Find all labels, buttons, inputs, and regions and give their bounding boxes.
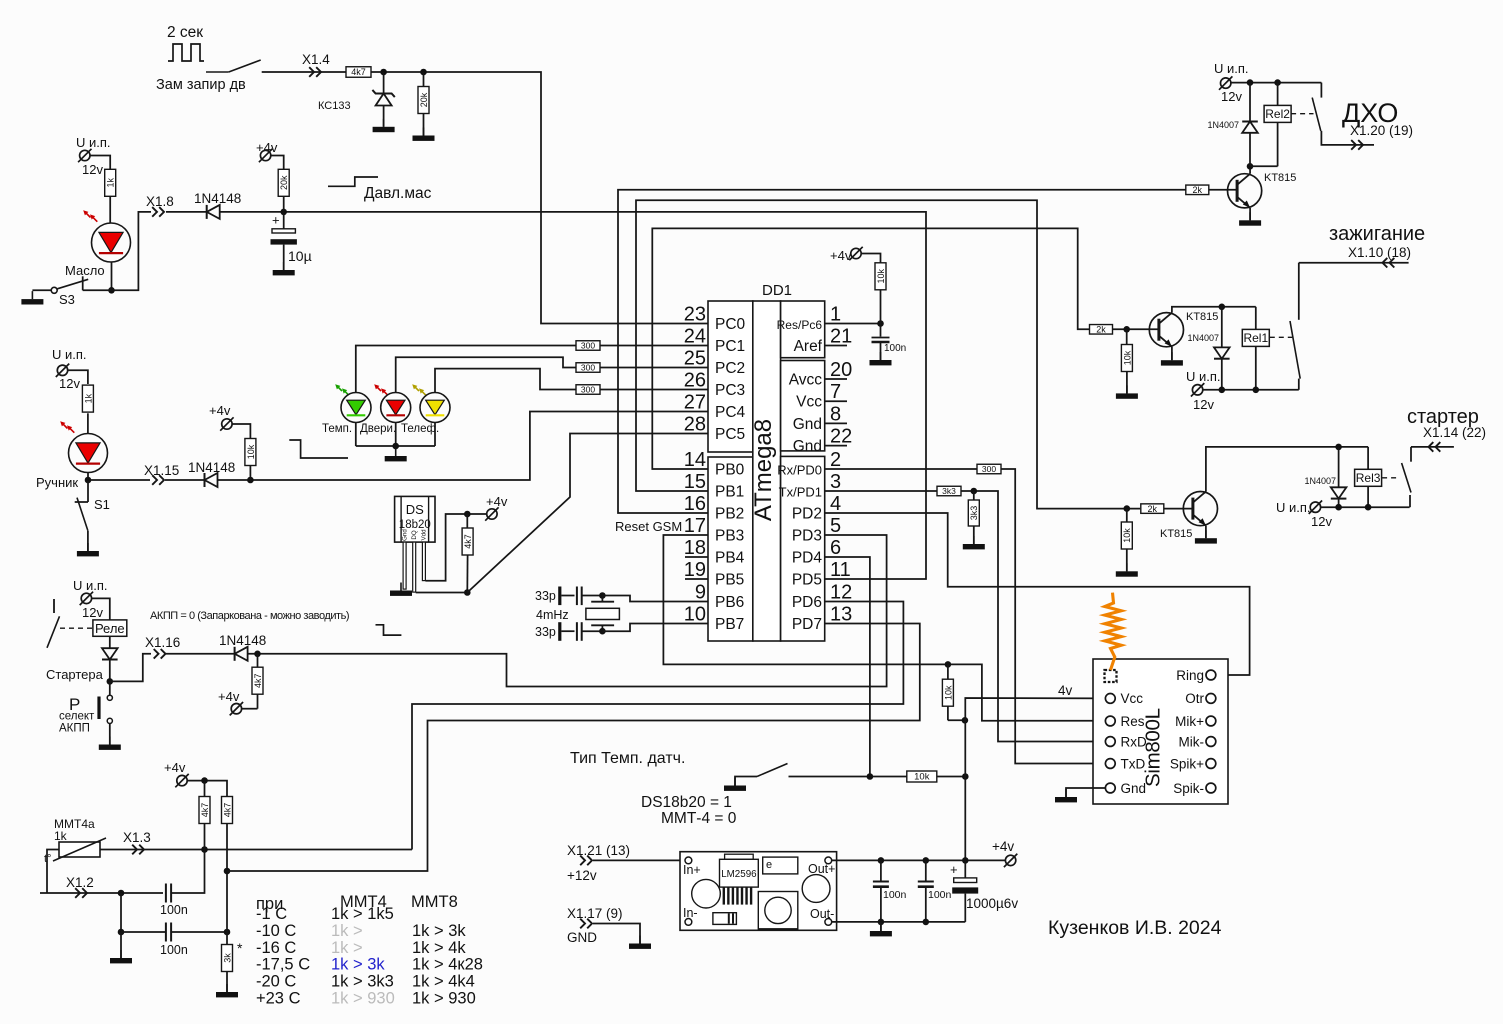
- resistor 10k Rel1: [1126, 329, 1128, 345]
- svg-text:26: 26: [684, 370, 706, 392]
- wire collector Rel1: [1172, 307, 1256, 313]
- ground X1.17: [639, 936, 641, 944]
- svg-text:Rel3: Rel3: [1356, 471, 1381, 485]
- wire PD4 to temp select: [825, 557, 870, 777]
- pin 22 Gnd stub: [825, 445, 847, 447]
- node pin1: [877, 320, 884, 327]
- svg-text:X1.4: X1.4: [302, 52, 330, 67]
- connector X1.10: [1390, 258, 1395, 268]
- svg-text:+23 C: +23 C: [256, 990, 301, 1008]
- LED Temp green: [337, 386, 342, 391]
- ground S1: [87, 543, 89, 551]
- svg-text:12v: 12v: [1193, 397, 1214, 412]
- node diode Rel3: [1335, 444, 1342, 451]
- wire to PC0 via vertical: [371, 72, 708, 324]
- wire LED to node: [87, 473, 89, 481]
- node 4k7 first: [201, 777, 208, 784]
- wire 2k to base Rel1: [1113, 328, 1159, 330]
- svg-text:1N4007: 1N4007: [1187, 333, 1219, 343]
- svg-text:S3: S3: [59, 292, 75, 307]
- resistor 2k Rel1: [1090, 325, 1113, 335]
- wire 300 to PC3: [600, 389, 708, 391]
- svg-text:U и.п.: U и.п.: [1276, 500, 1311, 515]
- wire collector DXO: [1249, 166, 1251, 174]
- svg-text:8: 8: [830, 403, 841, 425]
- pin Sim800 Mik-: [1206, 737, 1216, 747]
- svg-text:100n: 100n: [928, 889, 952, 901]
- svg-text:Mik-: Mik-: [1179, 734, 1205, 749]
- ground LEDs: [395, 448, 397, 456]
- svg-text:10µ: 10µ: [288, 248, 312, 264]
- svg-text:PC5: PC5: [715, 426, 745, 443]
- dashed Rel2 link: [1291, 113, 1313, 115]
- svg-text:300: 300: [581, 385, 595, 395]
- svg-text:DQ: DQ: [411, 530, 418, 539]
- connector X1.2: [75, 888, 80, 898]
- wire DQ diagonal to PC5: [467, 434, 708, 593]
- svg-text:18: 18: [684, 537, 706, 559]
- resistor 4k7 X1.3: [199, 797, 210, 824]
- svg-text:Зам запир дв: Зам запир дв: [156, 77, 246, 93]
- svg-text:300: 300: [581, 341, 595, 351]
- wire X1.2 down: [120, 893, 122, 932]
- pin 8 Gnd stub: [825, 422, 847, 424]
- svg-text:100n: 100n: [160, 943, 188, 957]
- ground DXO transistor: [1249, 212, 1251, 220]
- node Rel1 bottom: [1253, 387, 1260, 394]
- svg-text:10k: 10k: [246, 444, 256, 459]
- svg-text:1000µ6v: 1000µ6v: [966, 896, 1018, 911]
- svg-text:+: +: [950, 862, 958, 877]
- resistor 1k Ruchnik: [82, 385, 93, 412]
- svg-text:6: 6: [830, 537, 841, 559]
- svg-text:28: 28: [684, 414, 706, 436]
- resistor 4k7: [346, 67, 371, 78]
- svg-text:2k: 2k: [1148, 504, 1158, 514]
- capacitor 100n b: [925, 860, 927, 881]
- svg-text:100n: 100n: [160, 903, 188, 917]
- svg-text:25: 25: [684, 348, 706, 370]
- wire 10k to 4v rail: [948, 719, 965, 721]
- relay Rel3: [1367, 447, 1369, 470]
- svg-text:1N4007: 1N4007: [1304, 476, 1336, 486]
- svg-text:PB5: PB5: [715, 572, 744, 589]
- connector X1.4: [309, 67, 314, 77]
- svg-text:1k > 4k4: 1k > 4k4: [412, 973, 475, 991]
- ground Sim800: [1065, 789, 1067, 797]
- resistor 4k7 X1.16: [257, 654, 259, 668]
- svg-text:3: 3: [830, 471, 841, 493]
- svg-text:4k7: 4k7: [200, 803, 210, 818]
- svg-text:17: 17: [684, 515, 706, 537]
- svg-text:Реле: Реле: [95, 621, 125, 636]
- wire node to X1.16: [110, 654, 151, 682]
- svg-text:10k: 10k: [876, 269, 886, 284]
- svg-text:19: 19: [684, 559, 706, 581]
- svg-text:U и.п.: U и.п.: [52, 347, 87, 362]
- svg-text:-16 C: -16 C: [256, 939, 296, 957]
- wire X1.2 to PD7 long: [227, 624, 920, 872]
- pulse waveform 2 sec: [168, 44, 204, 61]
- ground Out-: [880, 922, 882, 931]
- resistor 1k Maslo: [105, 169, 116, 196]
- connector X1.15: [152, 475, 157, 485]
- svg-text:PB7: PB7: [715, 616, 744, 633]
- diode on board: [713, 913, 737, 925]
- node PB3 10k: [945, 661, 952, 668]
- svg-text:27: 27: [684, 392, 706, 414]
- svg-text:ММТ4: ММТ4: [340, 893, 387, 911]
- IC DD1 ATmega8 body: [708, 301, 753, 452]
- capacitor 100n upper: [165, 884, 167, 903]
- wire 2k to base: [1209, 189, 1238, 191]
- ground P selector: [109, 737, 111, 745]
- wire diode to PD5 long: [220, 212, 926, 579]
- svg-text:3k: 3k: [222, 953, 232, 963]
- module LM2596 board: [680, 852, 837, 931]
- svg-text:Spik-: Spik-: [1173, 781, 1204, 796]
- svg-text:PC1: PC1: [715, 338, 745, 355]
- pin Sim800 TxD: [1105, 759, 1115, 769]
- svg-text:1N4148: 1N4148: [188, 460, 235, 475]
- LED arrows: [62, 423, 67, 428]
- svg-text:Rel1: Rel1: [1243, 331, 1268, 345]
- svg-text:DS: DS: [406, 502, 424, 517]
- svg-text:PD4: PD4: [792, 550, 823, 567]
- wire PB0 to 2k Rel1: [652, 228, 1089, 469]
- svg-text:Mik+: Mik+: [1175, 714, 1204, 729]
- transistor KT815 Rel3: [1183, 492, 1217, 526]
- svg-text:селект: селект: [59, 711, 95, 723]
- svg-text:1N4148: 1N4148: [194, 191, 241, 206]
- wire emitter to ground: [1249, 208, 1251, 221]
- wire 4v rail vertical: [965, 698, 1104, 860]
- pin Sim800 Otr: [1206, 694, 1216, 704]
- resistor 10k pullup Ruchnik: [232, 424, 250, 439]
- svg-text:X1.10 (18): X1.10 (18): [1348, 245, 1411, 260]
- svg-text:-1 C: -1 C: [256, 905, 287, 923]
- wire supply to Rele: [92, 598, 110, 620]
- pin 7 Vcc stub: [825, 400, 847, 402]
- svg-text:Gnd: Gnd: [1121, 781, 1147, 796]
- svg-text:ММТ8: ММТ8: [411, 893, 458, 911]
- dashed Rel1 link: [1270, 336, 1293, 338]
- wire Out- rail: [832, 921, 966, 923]
- wire emitter Rel3: [1205, 526, 1207, 539]
- step symbol Ruchnik: [289, 440, 348, 458]
- LED Ruchnik red: [69, 434, 108, 473]
- LED Maslo red: [92, 223, 131, 262]
- node X1.2 lower: [118, 929, 125, 936]
- pin Sim800 Res: [1105, 716, 1115, 726]
- svg-text:20k: 20k: [279, 175, 289, 190]
- svg-text:АКПП: АКПП: [59, 723, 90, 735]
- relay Rel1: [1255, 307, 1257, 330]
- svg-text:33p: 33p: [535, 589, 556, 603]
- wire supply to 1k: [68, 370, 88, 384]
- svg-text:14: 14: [684, 449, 706, 471]
- resistor 4k7 X1.2: [222, 797, 233, 824]
- wire 300 to PC1: [600, 345, 708, 347]
- connector X1.8: [152, 207, 157, 217]
- ground 3k3: [973, 536, 975, 544]
- LED Telef yellow: [414, 386, 419, 391]
- svg-text:Avcc: Avcc: [789, 372, 823, 389]
- pin Sim800 Vcc: [1105, 694, 1115, 704]
- connector X1.20 out: [1351, 140, 1356, 150]
- svg-text:PC3: PC3: [715, 382, 745, 399]
- svg-text:2k: 2k: [1096, 325, 1106, 335]
- wire switch to 10k: [789, 776, 907, 778]
- IC LM2596 on board: [725, 854, 754, 859]
- svg-text:1k > 3k3: 1k > 3k3: [331, 973, 394, 991]
- svg-text:11: 11: [830, 559, 851, 581]
- node crystal bottom: [599, 628, 606, 635]
- ground S3: [31, 291, 33, 299]
- wire diode to PC4: [218, 412, 709, 481]
- resistor 3k3 series: [937, 486, 961, 496]
- svg-text:1k: 1k: [106, 178, 116, 188]
- dashed link Rele: [60, 627, 93, 629]
- wire X1.21 to In+: [593, 859, 685, 861]
- svg-text:Кузенков И.В. 2024: Кузенков И.В. 2024: [1048, 917, 1222, 939]
- svg-text:+: +: [272, 213, 280, 228]
- svg-text:Rel2: Rel2: [1265, 107, 1290, 121]
- node 3k3: [971, 488, 978, 495]
- antenna pad: [1105, 670, 1117, 682]
- wire node to X1.8: [83, 212, 151, 290]
- node junction zener: [380, 69, 387, 76]
- svg-text:+4v: +4v: [992, 839, 1014, 854]
- svg-text:PD6: PD6: [792, 594, 822, 611]
- svg-text:KT815: KT815: [1160, 528, 1192, 540]
- supply +4v X1.16: [242, 708, 258, 710]
- node Out- gnd: [878, 919, 885, 926]
- wire pin1 to 10k: [825, 323, 881, 325]
- svg-text:1k > 3k: 1k > 3k: [331, 956, 385, 974]
- svg-text:13: 13: [830, 604, 852, 626]
- svg-text:Тип Темп. датч.: Тип Темп. датч.: [570, 750, 685, 767]
- switch ignition: [1298, 263, 1300, 320]
- node diode DXO: [1247, 79, 1254, 86]
- svg-text:Reset GSM: Reset GSM: [615, 519, 682, 534]
- wire cap to 4k7 node: [171, 850, 204, 894]
- diode 1N4007 Rel1: [1221, 307, 1223, 348]
- node Rel2: [1274, 79, 1281, 86]
- node collector DXO: [1247, 163, 1254, 170]
- svg-text:12v: 12v: [1221, 89, 1242, 104]
- sensor DS18b20 package: [395, 496, 435, 542]
- ground zener: [383, 119, 385, 127]
- svg-text:Res: Res: [1121, 714, 1145, 729]
- pin Vdd DS: [422, 542, 425, 581]
- svg-text:1k: 1k: [83, 393, 93, 403]
- svg-text:*: *: [237, 940, 243, 956]
- svg-text:+4v: +4v: [830, 248, 852, 263]
- wire thermistor left to X1.2: [47, 850, 59, 894]
- node 4v temp: [962, 773, 969, 780]
- svg-text:3k3: 3k3: [969, 506, 979, 521]
- capacitor on board left: [692, 879, 721, 908]
- capacitor 100n reset: [880, 324, 882, 337]
- svg-text:X1.3: X1.3: [123, 830, 151, 845]
- svg-text:X1.21 (13): X1.21 (13): [567, 843, 630, 858]
- svg-text:e: e: [766, 859, 772, 871]
- node diode Rel1: [1219, 304, 1226, 311]
- svg-text:300: 300: [982, 464, 996, 474]
- svg-text:Масло: Масло: [65, 263, 105, 278]
- svg-text:20: 20: [830, 359, 852, 381]
- ground 10k Rel3: [1126, 563, 1128, 571]
- svg-text:1N4148: 1N4148: [219, 633, 266, 648]
- ground 10u: [283, 262, 285, 270]
- pad Out-: [825, 919, 832, 926]
- svg-text:Aref: Aref: [794, 338, 823, 355]
- wire to PB6 jog: [602, 596, 708, 602]
- capacitor 10u: [283, 212, 285, 229]
- resistor 10k temp: [907, 771, 937, 782]
- svg-text:Out+: Out+: [808, 862, 835, 876]
- svg-text:100n: 100n: [884, 343, 906, 354]
- thermistor MMT4a: [59, 842, 100, 857]
- relay Rele box: [93, 620, 127, 636]
- wire X1.3 line: [100, 849, 412, 851]
- svg-text:1k > 3k: 1k > 3k: [412, 922, 466, 940]
- ground 10k Rel1: [1126, 385, 1128, 393]
- svg-text:КС133: КС133: [318, 100, 351, 112]
- node 4v 10k: [962, 717, 969, 724]
- resistor 300 PC2: [576, 363, 600, 373]
- svg-text:АКПП = 0 (Запаркована - можно: АКПП = 0 (Запаркована - можно заводить): [150, 610, 349, 622]
- wire to LED: [87, 413, 89, 434]
- node X1.3 4k7: [201, 846, 208, 853]
- svg-text:Темп.: Темп.: [322, 423, 352, 435]
- wire LED cathodes: [355, 423, 357, 447]
- svg-text:In+: In+: [683, 863, 701, 877]
- svg-text:24: 24: [684, 326, 706, 348]
- svg-text:PC2: PC2: [715, 360, 745, 377]
- svg-text:4k7: 4k7: [351, 67, 366, 77]
- node junction 20k: [420, 69, 427, 76]
- diode 1N4148 X1.16: [234, 647, 236, 661]
- diode 1N4007 Rel3: [1338, 447, 1340, 487]
- wire PB3 to Sim800 Res: [663, 535, 948, 664]
- node diode bottom Rel1: [1219, 387, 1226, 394]
- switch S3: [32, 289, 51, 291]
- pad In+: [685, 857, 692, 864]
- wire PD2 to Ring: [825, 513, 1250, 675]
- pin 18 PB4 stub: [685, 556, 708, 558]
- resistor 4k7 DS pullup: [466, 514, 468, 528]
- svg-text:DD1: DD1: [762, 282, 792, 299]
- svg-text:зажигание: зажигание: [1329, 223, 1425, 245]
- svg-text:12: 12: [830, 582, 852, 604]
- node 10k Rel1: [1123, 326, 1130, 333]
- svg-text:1N4007: 1N4007: [1207, 120, 1239, 130]
- wire 10k to 4v: [937, 776, 965, 778]
- svg-text:Otr: Otr: [1185, 691, 1204, 706]
- wire Out+ rail: [832, 859, 1006, 861]
- wire yellow LED anode to PC3: [435, 369, 576, 393]
- svg-text:Vcc: Vcc: [796, 394, 822, 411]
- pin Sim800 Mik+: [1206, 716, 1216, 726]
- wire X1.10: [1299, 262, 1409, 264]
- wire green LED anode to PC1: [356, 346, 576, 393]
- wire X1.14: [1411, 446, 1454, 448]
- selector P AKPP: [109, 681, 111, 695]
- node LED cathode: [392, 443, 399, 450]
- capacitor 1000u: [964, 860, 966, 877]
- wire emitter Rel1: [1171, 347, 1173, 361]
- svg-text:12v: 12v: [1311, 514, 1332, 529]
- wire 300 to Sim TxD: [1001, 469, 1105, 764]
- svg-text:300: 300: [581, 363, 595, 373]
- svg-text:LM2596: LM2596: [721, 869, 757, 880]
- node PD4 temp: [867, 773, 874, 780]
- svg-text:U и.п.: U и.п.: [1186, 369, 1221, 384]
- svg-text:Tx/PD1: Tx/PD1: [779, 485, 822, 500]
- wire LED to node: [111, 262, 113, 290]
- svg-text:+4v: +4v: [164, 760, 186, 775]
- wire red LED anode to PC2: [396, 357, 576, 392]
- resistor 2k DXO: [1186, 185, 1209, 195]
- wire Tx/PD1 to 3k3: [825, 490, 937, 492]
- wire 1k to LED: [109, 197, 111, 224]
- diode 1N4007 DXO: [1249, 83, 1251, 122]
- svg-text:1k > 4k: 1k > 4k: [412, 939, 466, 957]
- ground 3k: [226, 984, 228, 992]
- svg-text:+4v: +4v: [209, 403, 231, 418]
- svg-text:2: 2: [830, 449, 841, 471]
- svg-text:+12v: +12v: [567, 868, 597, 883]
- svg-text:In-: In-: [683, 906, 698, 920]
- node 4k7 X1.16: [254, 651, 261, 658]
- svg-text:1k: 1k: [54, 829, 68, 843]
- ground Rel1 transistor: [1171, 352, 1173, 360]
- wire 4k7-2 down / PD7 branch: [226, 824, 228, 933]
- svg-text:X1.15: X1.15: [144, 463, 179, 478]
- wire X1.4 to resistor: [262, 71, 346, 73]
- node X1.2: [118, 890, 125, 897]
- svg-text:Двери.: Двери.: [360, 423, 396, 435]
- svg-text:23: 23: [684, 304, 706, 326]
- pin Sim800 Spik-: [1206, 783, 1216, 793]
- node Rel3 bottom: [1365, 504, 1372, 511]
- dashed Rel3 link: [1382, 477, 1397, 479]
- svg-text:DS18b20 = 1: DS18b20 = 1: [641, 794, 732, 811]
- svg-text:PD2: PD2: [792, 506, 822, 523]
- svg-text:-17,5 C: -17,5 C: [256, 956, 310, 974]
- svg-text:Давл.мас: Давл.мас: [364, 185, 432, 202]
- svg-text:PC4: PC4: [715, 404, 746, 421]
- svg-text:2 сек: 2 сек: [167, 24, 203, 41]
- svg-text:Стартера: Стартера: [46, 667, 104, 682]
- svg-text:-20 C: -20 C: [256, 973, 296, 991]
- svg-text:PB3: PB3: [715, 528, 744, 545]
- svg-text:4k7: 4k7: [253, 673, 263, 688]
- svg-text:U и.п.: U и.п.: [76, 135, 111, 150]
- node 10k Rel3: [1124, 505, 1131, 512]
- svg-text:Gnd: Gnd: [401, 529, 408, 541]
- supply +4v out: [1005, 855, 1015, 865]
- svg-text:1k > 930: 1k > 930: [331, 990, 395, 1008]
- node starter: [107, 678, 114, 685]
- transistor KT815 Rel1: [1149, 313, 1183, 347]
- wire X1.2 line: [40, 892, 163, 894]
- svg-text:Res/Pc6: Res/Pc6: [777, 318, 823, 332]
- svg-text:1: 1: [830, 304, 841, 326]
- resistor 300 PC3: [576, 385, 600, 395]
